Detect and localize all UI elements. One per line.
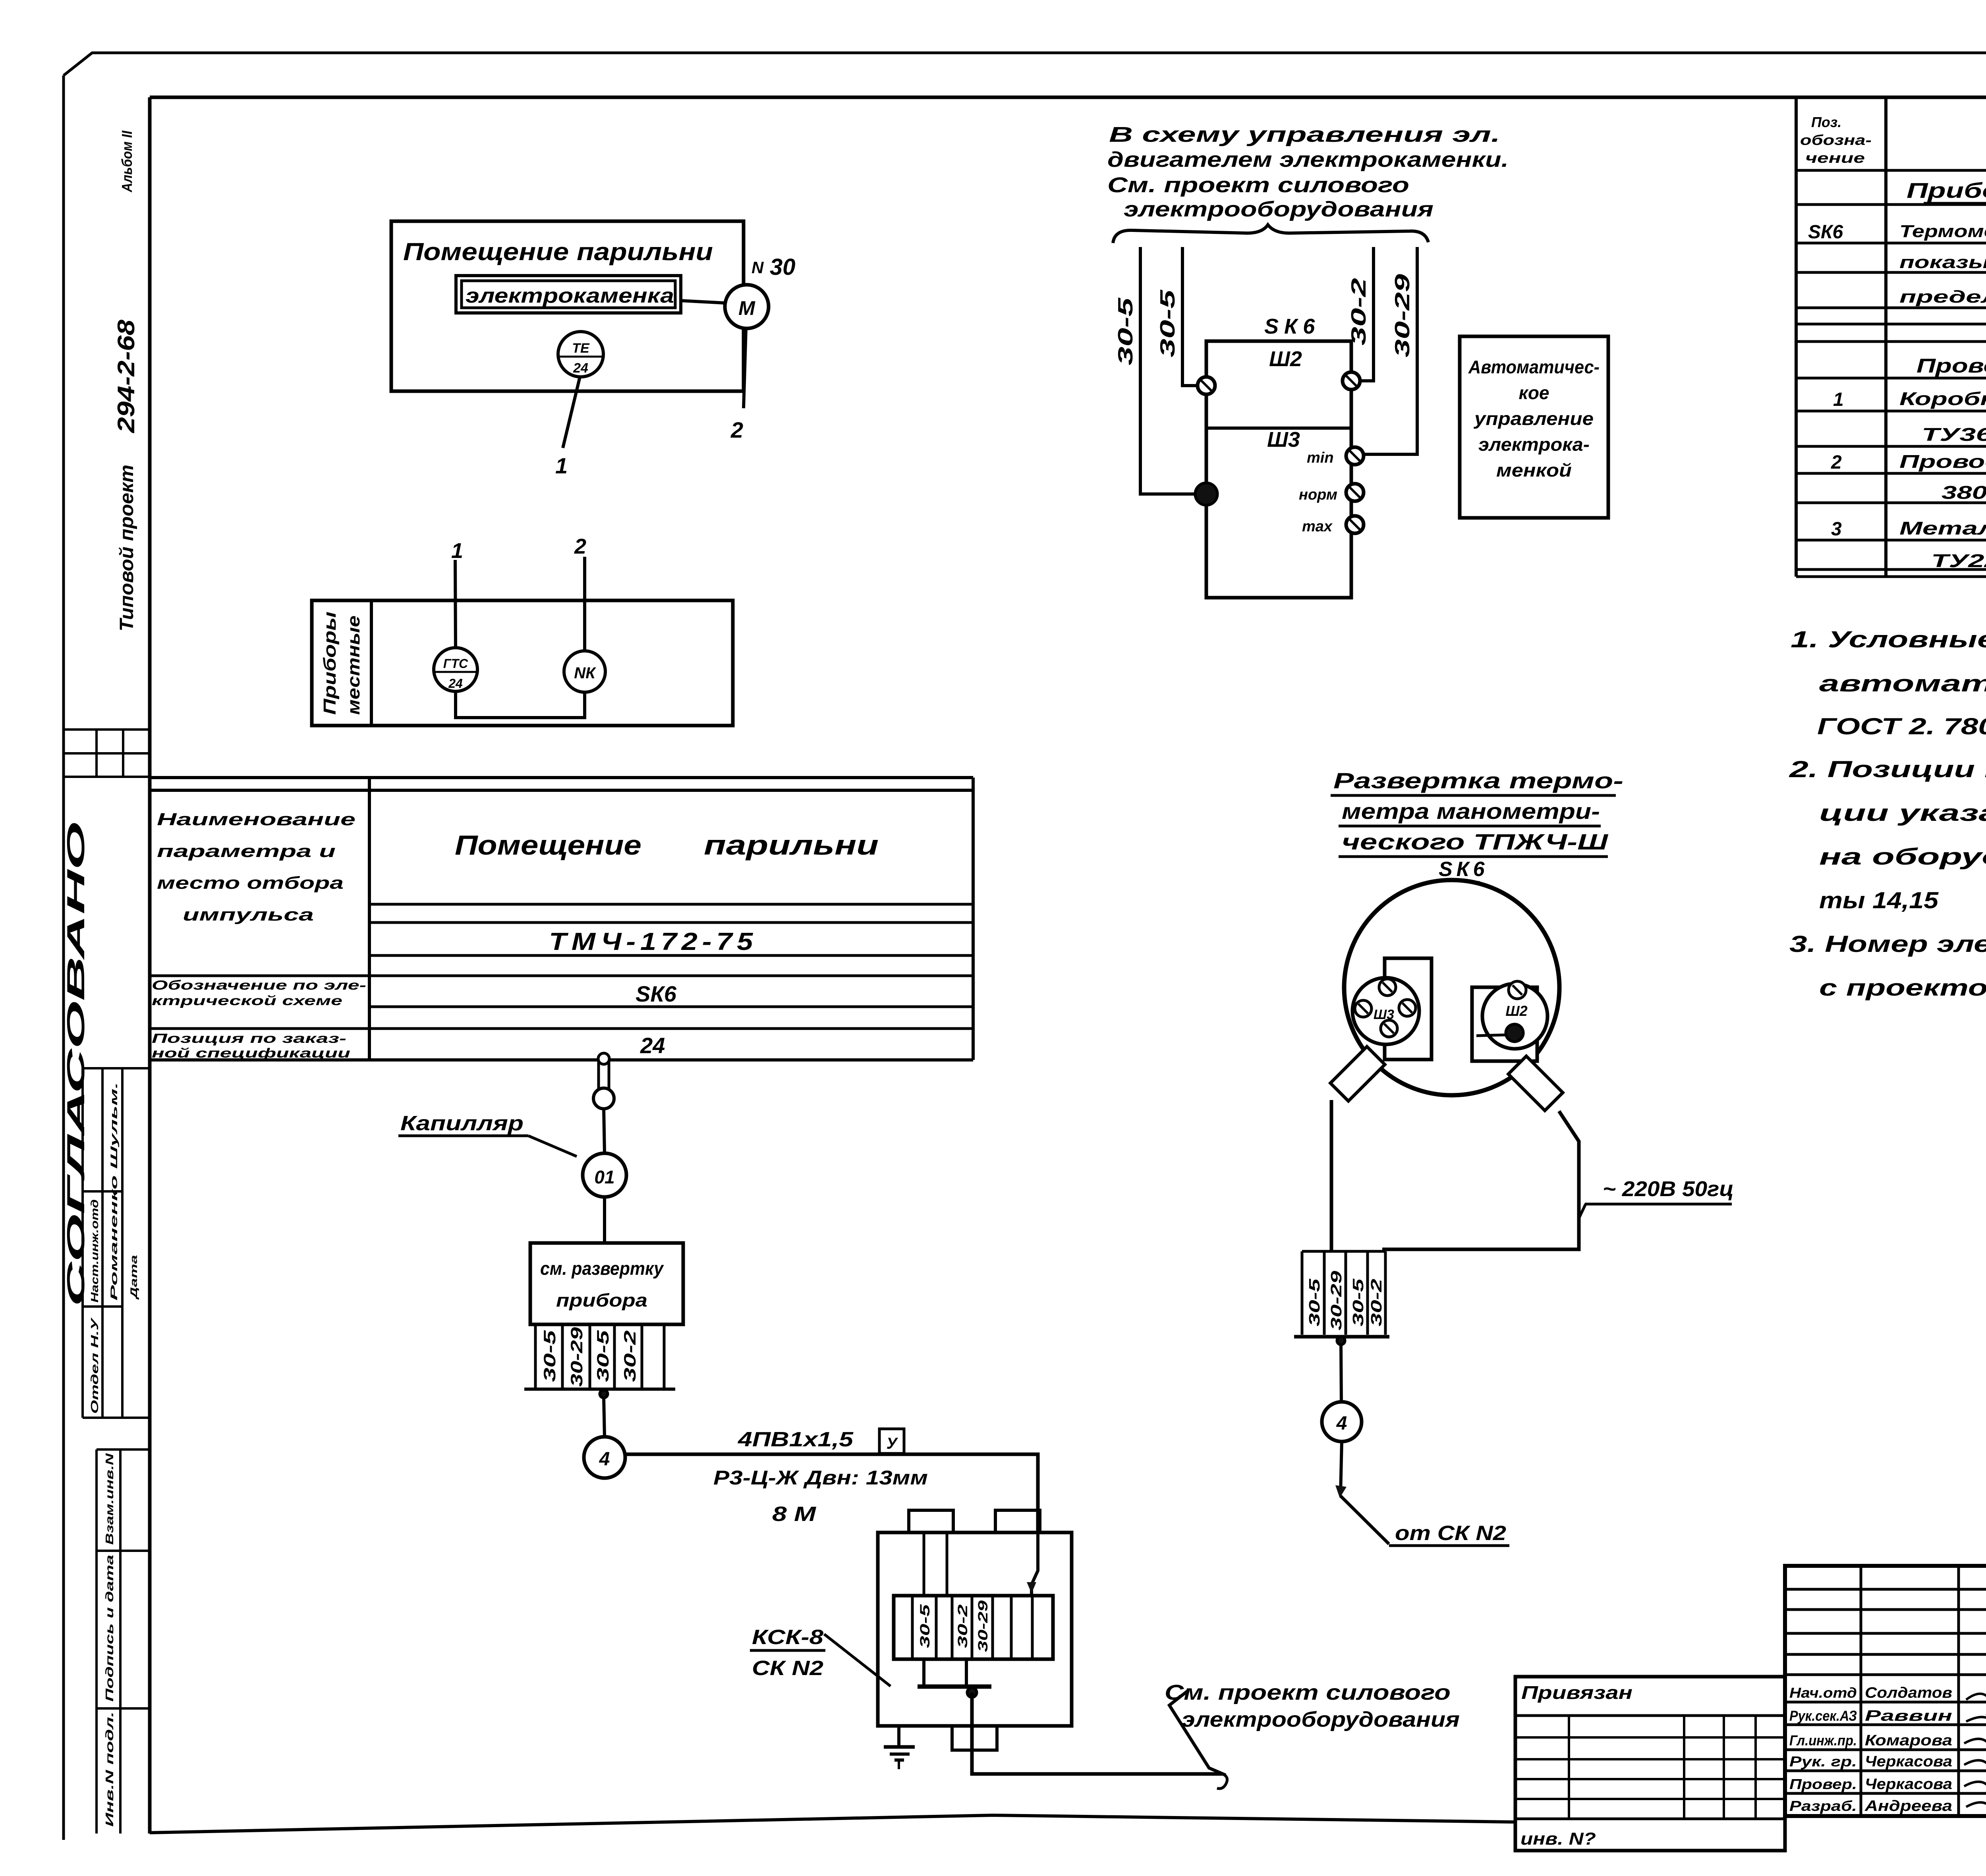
svg-text:SК6: SК6: [1264, 315, 1320, 338]
svg-text:Помещение парильни: Помещение парильни: [403, 238, 713, 266]
box см развертку прибора: [530, 1243, 683, 1324]
svg-text:См. проект силового: См. проект силового: [1107, 173, 1409, 197]
svg-text:ГТС: ГТС: [443, 656, 468, 671]
instrument GTS 24: [434, 648, 477, 691]
svg-text:2. Позиции прибора и средст: 2. Позиции прибора и средств автоматиза-: [1789, 757, 1986, 782]
svg-text:Черкасова: Черкасова: [1865, 1776, 1952, 1793]
symbol У box: [879, 1429, 904, 1453]
wire 4 to KSK box: [625, 1454, 1038, 1532]
svg-text:В схему управления эл.: В схему управления эл.: [1109, 123, 1500, 147]
svg-text:30-5: 30-5: [593, 1330, 612, 1382]
svg-text:Наст.инж.отд: Наст.инж.отд: [89, 1199, 100, 1303]
svg-text:Приборы по месту: Приборы по месту: [1907, 179, 1986, 203]
terminal pins Ш3: [1379, 979, 1396, 996]
svg-text:ческого ТПЖЧ-Ш: ческого ТПЖЧ-Ш: [1342, 829, 1609, 854]
svg-text:30-29: 30-29: [976, 1600, 991, 1652]
junction dot: [1337, 1337, 1345, 1345]
svg-text:с проектом силового электро: с проектом силового электрооборудования.: [1819, 975, 1986, 1001]
outgoing wire: [972, 1693, 1223, 1774]
title block main box: [1785, 1566, 1986, 1816]
svg-text:двигателем электрокаменки.: двигателем электрокаменки.: [1107, 148, 1509, 172]
wires strip to bus: [922, 1659, 925, 1685]
svg-text:30-2: 30-2: [1347, 278, 1370, 345]
capillary wire: [604, 1109, 605, 1153]
svg-text:30-5: 30-5: [1350, 1278, 1367, 1326]
ground symbol: [897, 1726, 900, 1746]
svg-text:30-5: 30-5: [918, 1604, 933, 1648]
svg-text:Термометр манометрический ТПЖЧ: Термометр манометрический ТПЖЧ-Ш: [1899, 222, 1986, 241]
terminal pins Ш2: [1509, 981, 1526, 999]
svg-text:Дата: Дата: [129, 1255, 139, 1300]
wire diagonal to CK N2: [1341, 1496, 1389, 1544]
svg-text:параметра и: параметра и: [157, 841, 336, 861]
box Автоматическое управление: [1460, 336, 1608, 518]
brace: [1113, 225, 1428, 243]
leader zigzag: [1169, 1691, 1226, 1775]
svg-text:Разраб.: Разраб.: [1789, 1798, 1857, 1814]
wire from TE down: [563, 377, 580, 448]
svg-text:3. Номер электропривода дан: 3. Номер электропривода дан в соответств…: [1789, 931, 1986, 957]
strip base line: [1294, 1335, 1389, 1339]
wires glands to strip: [923, 1532, 925, 1596]
svg-text:инв. N?: инв. N?: [1520, 1829, 1596, 1849]
svg-text:Помещение: Помещение: [455, 830, 641, 861]
box Приборы местные: [312, 600, 733, 726]
svg-text:Привязан: Привязан: [1521, 1682, 1632, 1703]
wire from 4 down: [1341, 1442, 1342, 1494]
wire 30-5 left: [1140, 247, 1197, 494]
svg-text:СК N2: СК N2: [752, 1657, 823, 1680]
svg-text:норм: норм: [1299, 486, 1337, 503]
svg-text:Капилляр: Капилляр: [400, 1112, 524, 1135]
body outline left: [1330, 1100, 1333, 1251]
instrument 01: [583, 1153, 626, 1197]
svg-text:Комарова: Комарова: [1865, 1732, 1952, 1749]
motor M N30: [725, 285, 769, 328]
svg-text:Нач.отд: Нач.отд: [1789, 1685, 1857, 1701]
wire from motor down: [744, 328, 746, 408]
svg-text:Типовой проект: Типовой проект: [116, 465, 137, 631]
svg-text:1: 1: [451, 539, 463, 563]
sheet outer border: [64, 53, 1986, 75]
terminal strips развертки: [1301, 1251, 1304, 1335]
svg-text:30-5: 30-5: [540, 1330, 559, 1382]
svg-text:30-29: 30-29: [567, 1327, 586, 1387]
svg-text:2: 2: [730, 417, 743, 442]
svg-text:Провода и монтажные изделия: Провода и монтажные изделия: [1916, 355, 1986, 377]
svg-text:Рук. гр.: Рук. гр.: [1789, 1753, 1857, 1770]
svg-text:Солдатов: Солдатов: [1865, 1685, 1952, 1701]
svg-text:Приборы: Приборы: [320, 612, 340, 715]
svg-text:Автоматичес-: Автоматичес-: [1468, 357, 1600, 377]
svg-text:метра манометри-: метра манометри-: [1342, 799, 1600, 824]
cable gland bottom: [952, 1726, 997, 1750]
svg-text:1. Условные обозначения приб: 1. Условные обозначения прибора и средст…: [1791, 627, 1986, 652]
instrument NK: [564, 651, 605, 692]
svg-text:3: 3: [1831, 519, 1842, 540]
svg-text:4ПВ1х1,5: 4ПВ1х1,5: [738, 1428, 854, 1451]
svg-text:ТЕ: ТЕ: [572, 341, 590, 356]
svg-text:30-5: 30-5: [1306, 1278, 1323, 1326]
svg-text:Раввин: Раввин: [1865, 1708, 1952, 1724]
margin names subtable: [83, 1067, 150, 1069]
svg-text:Ш3: Ш3: [1267, 428, 1300, 452]
svg-text:У: У: [886, 1435, 898, 1452]
svg-text:Гл.инж.пр.: Гл.инж.пр.: [1789, 1732, 1857, 1749]
instrument TE 24: [558, 332, 603, 377]
svg-text:30-2: 30-2: [955, 1604, 970, 1648]
svg-text:Наименование: Наименование: [157, 810, 355, 829]
wire 2 to NK: [583, 557, 586, 652]
svg-text:Отдел Н.У: Отдел Н.У: [89, 1317, 100, 1414]
svg-text:автоматизации даны по ОСТ 3: автоматизации даны по ОСТ 36- 27- 77,: [1819, 671, 1986, 697]
wire end hook: [1217, 1774, 1227, 1789]
leader to KSK box: [824, 1634, 891, 1686]
svg-text:ТМЧ-172-75: ТМЧ-172-75: [549, 928, 757, 955]
svg-text:управление: управление: [1474, 408, 1594, 429]
junction node big: [1195, 483, 1217, 505]
mounting plate left: [1385, 958, 1432, 1060]
svg-text:См. проект силового: См. проект силового: [1165, 1681, 1451, 1704]
connector Ш3: [1352, 978, 1419, 1044]
terminal strip: [894, 1596, 1053, 1659]
svg-text:min: min: [1307, 450, 1334, 466]
terminal strips under box: [534, 1324, 537, 1389]
inner frame: [150, 96, 1986, 99]
terminal Ш2 left: [1198, 377, 1215, 394]
svg-text:Ш3: Ш3: [1374, 1007, 1394, 1022]
svg-text:Р3-Ц-Ж Двн: 13мм: Р3-Ц-Ж Двн: 13мм: [713, 1467, 928, 1489]
svg-text:Рук.сек.АЗ: Рук.сек.АЗ: [1789, 1708, 1857, 1724]
incoming wire jog: [1032, 1532, 1038, 1596]
wire 30-2: [1360, 247, 1374, 381]
mounting plate right: [1472, 987, 1537, 1061]
svg-text:380В ГОСТ 6323- 79: 380В ГОСТ 6323- 79: [1942, 482, 1986, 503]
svg-text:Андреева: Андреева: [1864, 1798, 1952, 1814]
wire 1 to GTS: [455, 560, 456, 648]
thermometer bulb: [597, 1061, 600, 1089]
svg-text:импульса: импульса: [183, 905, 314, 924]
svg-text:Поз.: Поз.: [1811, 114, 1841, 130]
svg-text:ты 14,15: ты 14,15: [1819, 888, 1939, 913]
svg-text:ктрической схеме: ктрической схеме: [152, 993, 342, 1008]
svg-text:4: 4: [599, 1449, 610, 1470]
box Помещение парильни: [391, 221, 744, 391]
junction dot: [600, 1390, 608, 1398]
terminal Ш2 right: [1343, 372, 1360, 390]
svg-text:SК6: SК6: [636, 981, 677, 1006]
svg-text:Черкасова: Черкасова: [1865, 1753, 1952, 1770]
revision and names grid: [1785, 1588, 1986, 1591]
svg-text:2: 2: [574, 535, 586, 558]
svg-text:Провер.: Провер.: [1789, 1776, 1857, 1792]
connector Ш2: [1482, 984, 1547, 1049]
svg-text:кое: кое: [1519, 382, 1549, 403]
terminal max: [1346, 516, 1364, 533]
svg-text:SК6: SК6: [1808, 222, 1843, 243]
svg-text:30-29: 30-29: [1328, 1271, 1345, 1330]
svg-text:КСК-8: КСК-8: [752, 1626, 823, 1649]
terminal норм: [1346, 484, 1364, 501]
svg-text:Позиция по заказ-: Позиция по заказ-: [152, 1031, 346, 1046]
svg-text:ТУ36. 1753-75: ТУ36. 1753-75: [1922, 424, 1986, 445]
svg-text:ТУ22. 2173- 71: ТУ22. 2173- 71: [1931, 550, 1986, 571]
instrument 4: [604, 1398, 605, 1437]
svg-text:от СК N2: от СК N2: [1395, 1522, 1506, 1545]
thermometer body circle: [1344, 880, 1559, 1095]
svg-text:Взам.инв.N: Взам.инв.N: [103, 1453, 116, 1545]
svg-text:8 М: 8 М: [772, 1503, 817, 1526]
svg-text:Обозначение по эле-: Обозначение по эле-: [152, 978, 366, 992]
wire GTS to NK: [456, 691, 585, 718]
svg-text:электрока-: электрока-: [1478, 434, 1590, 455]
wire heater to motor: [681, 301, 725, 303]
mounting tab left: [1330, 1046, 1385, 1101]
svg-text:обозна-: обозна-: [1800, 132, 1872, 148]
junction box КСК-8 СК N2: [878, 1532, 1072, 1726]
svg-text:30-2: 30-2: [620, 1330, 639, 1382]
svg-text:Провод с медной жилой ПВ1х1,: Провод с медной жилой ПВ1х1,5: [1899, 451, 1986, 472]
svg-text:30-2: 30-2: [1368, 1279, 1385, 1326]
svg-text:чение: чение: [1805, 150, 1865, 166]
electric heater электрокаменка: [456, 276, 681, 313]
svg-text:2: 2: [1831, 452, 1842, 473]
svg-text:30-5: 30-5: [1156, 289, 1179, 357]
svg-text:М: М: [738, 297, 755, 319]
svg-text:пределы измерения 0 ÷ 150°С: пределы измерения 0 ÷ 150°С: [1899, 287, 1986, 307]
svg-text:SК6: SК6: [1439, 858, 1489, 881]
margin bottom subtable: [97, 1448, 150, 1451]
svg-text:ной спецификации: ной спецификации: [152, 1046, 350, 1060]
svg-text:Коробка соединительная КСК-8: Коробка соединительная КСК-8: [1899, 388, 1986, 409]
cable gland top left: [909, 1510, 953, 1532]
wire to instrument 4: [1341, 1345, 1341, 1403]
svg-text:парильни: парильни: [704, 830, 879, 861]
svg-text:1: 1: [555, 453, 568, 478]
svg-text:Инв.N подл.: Инв.N подл.: [103, 1712, 116, 1827]
svg-text:Альбом II: Альбом II: [119, 130, 135, 193]
signatures scribble: [1966, 1694, 1986, 1720]
svg-text:30: 30: [770, 254, 796, 280]
margin strip top subtable: [64, 728, 150, 731]
mounting tab right: [1508, 1056, 1563, 1110]
svg-text:01: 01: [594, 1167, 614, 1187]
svg-text:1: 1: [1833, 389, 1844, 410]
strip base line: [524, 1388, 675, 1391]
svg-text:Развертка термо-: Развертка термо-: [1333, 768, 1623, 793]
spec table grid: [1795, 97, 1798, 577]
cable gland top right: [995, 1510, 1040, 1532]
svg-text:Ш2: Ш2: [1505, 1003, 1527, 1019]
svg-text:24: 24: [448, 676, 463, 691]
svg-text:Ш2: Ш2: [1269, 347, 1302, 371]
svg-text:30-29: 30-29: [1391, 274, 1414, 357]
svg-text:max: max: [1302, 518, 1333, 535]
svg-text:24: 24: [640, 1033, 665, 1058]
svg-text:4: 4: [1336, 1413, 1347, 1434]
svg-text:30-5: 30-5: [1114, 297, 1137, 365]
svg-text:менкой: менкой: [1496, 460, 1572, 481]
svg-text:показывающий, сигнализирующий: показывающий, сигнализирующий: [1899, 253, 1986, 272]
svg-text:электрооборудования: электрооборудования: [1124, 197, 1433, 221]
svg-text:24: 24: [573, 361, 588, 376]
connector box Ш2 Ш3: [1206, 341, 1351, 598]
wire 30-5 second: [1182, 247, 1198, 386]
svg-text:Подпись и дата: Подпись и дата: [103, 1555, 116, 1702]
svg-text:прибора: прибора: [556, 1290, 647, 1310]
svg-text:NК: NК: [574, 664, 596, 682]
svg-text:см. развертку: см. развертку: [540, 1258, 664, 1279]
svg-text:294-2-68: 294-2-68: [113, 319, 139, 433]
parameter table grid: [150, 776, 973, 779]
svg-text:электрооборудования: электрооборудования: [1182, 1708, 1460, 1731]
svg-text:местные: местные: [344, 616, 363, 715]
svg-text:место отбора: место отбора: [157, 873, 344, 893]
svg-text:ции указаны по сводной спе: ции указаны по сводной спецификации: [1819, 800, 1986, 826]
terminal min: [1346, 447, 1364, 465]
svg-text:СОГЛАСОВАНО: СОГЛАСОВАНО: [62, 822, 90, 1307]
body outline right: [1382, 1111, 1579, 1249]
svg-text:ГОСТ 2. 780- 68, ГОСТ 2. 784-: ГОСТ 2. 780- 68, ГОСТ 2. 784- 70, ГОСТ2.…: [1817, 714, 1986, 739]
svg-text:на оборудование и материалы: на оборудование и материалы см. лис-: [1819, 844, 1986, 870]
wire 30-29: [1364, 247, 1417, 454]
svg-text:Романенко Шульм.: Романенко Шульм.: [109, 1082, 120, 1301]
svg-text:электрокаменка: электрокаменка: [466, 284, 674, 307]
svg-text:~ 220В 50гц: ~ 220В 50гц: [1603, 1177, 1734, 1201]
instrument 4: [1322, 1402, 1362, 1442]
svg-text:Металлорукав Р3-Ц-Х-15: Металлорукав Р3-Ц-Х-15: [1899, 518, 1986, 538]
svg-text:N: N: [752, 258, 764, 277]
wire 01 to box: [603, 1197, 606, 1243]
title block left section: [1515, 1677, 1785, 1851]
frame bottom line: [150, 1815, 1515, 1833]
bus bar: [918, 1685, 991, 1689]
